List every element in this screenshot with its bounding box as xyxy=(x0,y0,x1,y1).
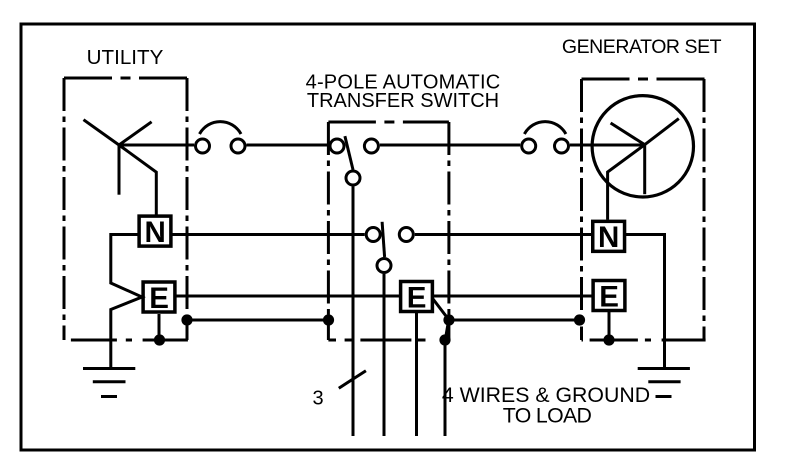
wire ground transfer switch to generator xyxy=(449,319,580,322)
svg-text:E: E xyxy=(407,281,427,314)
wire utility to breaker CB1 xyxy=(119,144,194,147)
transfer switch pole 1 (phase) xyxy=(330,136,378,185)
wire transfer switch E to ground node xyxy=(433,299,449,319)
wire ground utility to transfer switch xyxy=(187,319,329,322)
utility enclosure dash-dot box xyxy=(64,78,188,340)
svg-text:N: N xyxy=(144,216,165,249)
wire E line transfer switch to generator E xyxy=(433,295,592,298)
ground symbol (generator) xyxy=(638,369,690,397)
generator G1 symbol xyxy=(592,96,693,220)
wire E line utility to transfer switch E xyxy=(176,295,400,298)
transfer switch pole 2 (neutral) xyxy=(366,222,413,273)
wire pole 1 to breaker CB2 xyxy=(380,144,520,147)
wire CB2 to generator xyxy=(570,144,645,147)
transfer switch enclosure dash-dot box xyxy=(328,122,449,340)
wire neutral utility N to pole 2 xyxy=(172,233,365,236)
svg-text:TO LOAD: TO LOAD xyxy=(503,404,592,428)
terminal box N (utility) xyxy=(139,216,171,249)
three-phase slash mark xyxy=(339,371,366,389)
wire pole 2 to generator N xyxy=(415,233,592,236)
wire CB1 to transfer switch pole 1 xyxy=(247,144,329,147)
junction dot utility enclosure bond xyxy=(154,334,165,345)
circuit breaker CB1 (utility) xyxy=(196,122,246,153)
wire generator N to ground xyxy=(625,235,664,369)
svg-text:N: N xyxy=(598,221,619,254)
wire pole 1 load side down xyxy=(352,187,355,437)
label 4 WIRES & GROUND TO LOAD xyxy=(442,383,650,428)
terminal box N (generator) xyxy=(593,221,625,254)
generator enclosure dash-dot box xyxy=(582,79,706,340)
terminal box E (generator) xyxy=(593,280,625,313)
wire transfer switch E to load xyxy=(415,313,418,436)
wire utility E to enclosure bond xyxy=(158,314,161,340)
ground symbol (utility) xyxy=(83,369,135,397)
junction dot generator bottom bond xyxy=(603,334,614,345)
junction dot transfer switch left bond xyxy=(323,314,334,325)
terminal box E (utility) xyxy=(143,282,175,315)
wire ground conductor to load xyxy=(444,340,447,436)
junction dot transfer switch bottom bond xyxy=(439,334,450,345)
terminal box E (transfer switch) xyxy=(401,281,433,314)
svg-text:3: 3 xyxy=(312,388,323,410)
svg-text:GENERATOR SET: GENERATOR SET xyxy=(562,36,722,58)
svg-text:UTILITY: UTILITY xyxy=(87,46,164,69)
label 4-POLE AUTOMATIC TRANSFER SWITCH xyxy=(306,72,501,113)
utility source symbol xyxy=(84,120,157,215)
wire N bonding jumper (utility) xyxy=(111,235,142,369)
junction dot generator enclosure bond xyxy=(574,314,585,325)
wire pole 2 load side down xyxy=(383,274,386,436)
junction dot utility ground wire xyxy=(181,314,192,325)
wire bond dot3 to dot4 xyxy=(445,320,448,339)
circuit breaker CB2 (generator) xyxy=(522,122,569,153)
svg-text:TRANSFER SWITCH: TRANSFER SWITCH xyxy=(307,90,499,112)
wire generator E to enclosure bond xyxy=(608,312,611,340)
junction dot transfer switch right bond xyxy=(443,314,454,325)
svg-text:E: E xyxy=(149,282,169,315)
svg-text:E: E xyxy=(599,280,619,313)
